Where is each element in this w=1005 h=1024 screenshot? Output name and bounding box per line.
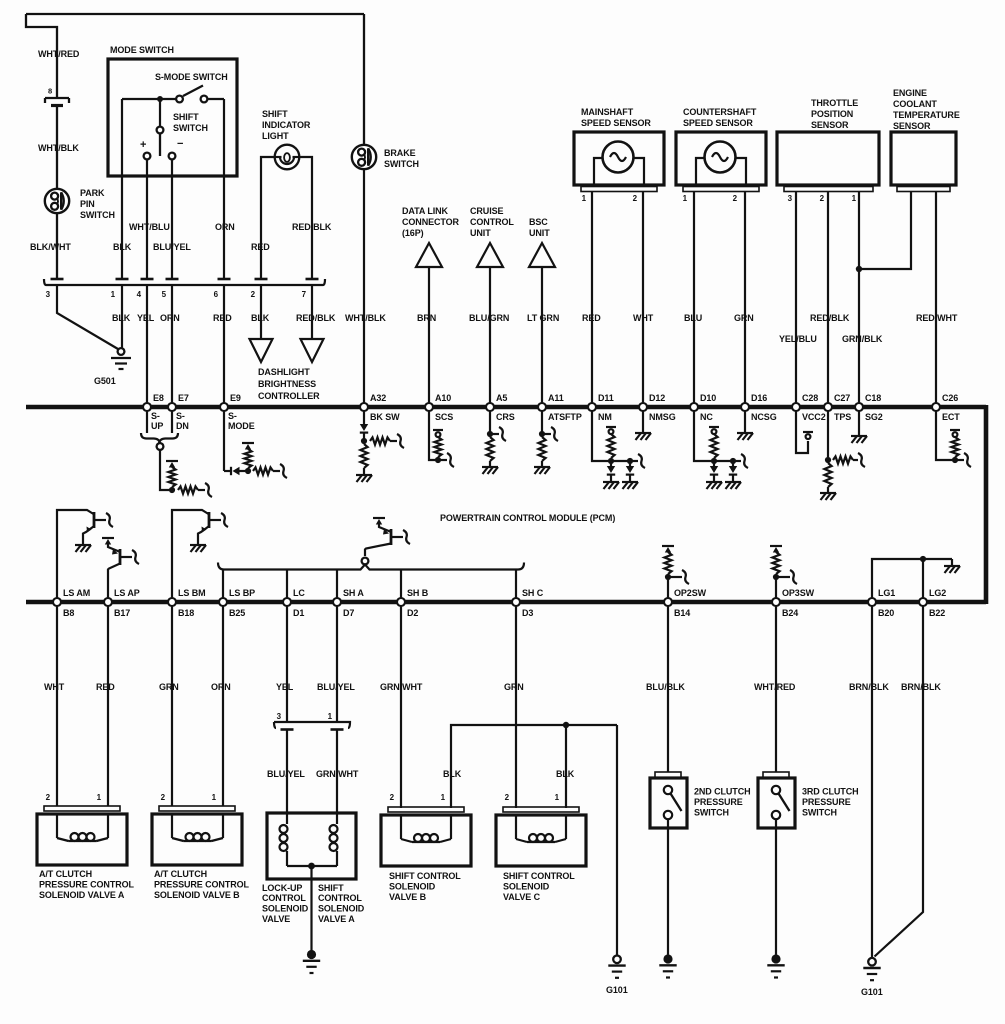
svg-text:SWITCH: SWITCH — [384, 159, 419, 169]
svg-text:E7: E7 — [178, 393, 189, 403]
svg-text:PRESSURE CONTROL: PRESSURE CONTROL — [154, 880, 250, 890]
ground rail BLK — [451, 725, 617, 808]
wire GRN LS BM — [171, 607, 173, 807]
svg-text:C28: C28 — [802, 393, 818, 403]
svg-text:VALVE B: VALVE B — [389, 892, 427, 902]
wire YEL/BLU TPS 3 to C28 — [795, 192, 797, 406]
svg-text:A32: A32 — [370, 393, 386, 403]
svg-text:C18: C18 — [865, 393, 881, 403]
svg-text:DN: DN — [176, 421, 189, 431]
svg-text:1: 1 — [111, 290, 116, 299]
svg-text:+: + — [140, 139, 146, 151]
svg-text:D3: D3 — [522, 608, 533, 618]
svg-text:CRUISE: CRUISE — [470, 206, 504, 216]
svg-text:VCC2: VCC2 — [802, 412, 826, 422]
svg-text:CONNECTOR: CONNECTOR — [402, 217, 460, 227]
wire RED LS AP — [107, 607, 109, 807]
svg-text:SOLENOID: SOLENOID — [503, 882, 550, 892]
connector OP3SW / B24 — [772, 598, 780, 606]
svg-text:A10: A10 — [435, 393, 451, 403]
svg-text:SPEED SENSOR: SPEED SENSOR — [581, 118, 651, 128]
svg-text:7: 7 — [302, 290, 307, 299]
connector LS AP / B17 — [104, 598, 112, 606]
wire YEL pin4 to E8 — [146, 285, 148, 405]
internal circuit LG1/LG2 ground — [872, 559, 952, 600]
wire GRN/WHT to shift solenoid A — [336, 730, 338, 814]
terminal bar pin x=122 — [116, 278, 129, 281]
internal circuit ATSFTP: resistor to ground — [541, 412, 543, 435]
svg-text:WHT/BLK: WHT/BLK — [345, 313, 386, 323]
terminal bar pin x=147 — [141, 278, 154, 281]
svg-text:BLU/YEL: BLU/YEL — [267, 769, 305, 779]
wire GRN/WHT SH B — [400, 607, 402, 809]
PCM upper edge bus — [26, 405, 986, 410]
wire shift indicator RED/BLK — [299, 157, 312, 279]
connector SH C / D3 — [512, 598, 520, 606]
svg-text:YEL: YEL — [276, 682, 294, 692]
svg-text:8: 8 — [48, 87, 52, 96]
svg-text:B25: B25 — [229, 608, 245, 618]
svg-text:A5: A5 — [496, 393, 507, 403]
internal circuit OP3SW: pull-up resistor — [770, 545, 782, 547]
svg-text:MODE: MODE — [228, 421, 255, 431]
internal circuit S-MODE: diode, pull-up resistor, series resistor — [223, 412, 225, 472]
svg-text:UNIT: UNIT — [529, 228, 550, 238]
svg-text:SWITCH: SWITCH — [802, 808, 837, 818]
internal circuit NM: pull-up, clamp diodes, grounds — [592, 412, 611, 462]
transistor LS AM driver Q1 — [57, 510, 94, 600]
transistor LS BM driver Q2 — [172, 510, 209, 600]
svg-text:2ND CLUTCH: 2ND CLUTCH — [694, 787, 751, 797]
svg-text:WHT/RED: WHT/RED — [754, 682, 796, 692]
svg-text:WHT: WHT — [44, 682, 65, 692]
svg-text:VALVE: VALVE — [262, 914, 290, 924]
internal circuit CRS: resistor to ground — [489, 412, 491, 435]
wire YEL LC — [286, 607, 288, 723]
connector C27 — [824, 403, 832, 411]
svg-text:S-: S- — [228, 411, 237, 421]
connector A10 — [425, 403, 433, 411]
svg-text:COUNTERSHAFT: COUNTERSHAFT — [683, 107, 757, 117]
svg-text:D16: D16 — [751, 393, 767, 403]
wire top feed B+ — [26, 13, 364, 15]
wire LT GRN to A11 — [541, 267, 543, 405]
junction dot valve C pin 1 — [563, 722, 569, 728]
svg-text:B14: B14 — [674, 608, 690, 618]
svg-text:OP3SW: OP3SW — [782, 588, 815, 598]
svg-text:PRESSURE CONTROL: PRESSURE CONTROL — [39, 880, 135, 890]
svg-text:POSITION: POSITION — [811, 109, 853, 119]
svg-text:UNIT: UNIT — [470, 228, 491, 238]
svg-text:LS BP: LS BP — [229, 588, 255, 598]
svg-text:1: 1 — [212, 793, 217, 802]
svg-text:OP2SW: OP2SW — [674, 588, 707, 598]
svg-text:B24: B24 — [782, 608, 798, 618]
svg-text:BRN/BLK: BRN/BLK — [849, 682, 889, 692]
wire ORN LS BP — [222, 607, 224, 807]
svg-text:GRN/WHT: GRN/WHT — [316, 769, 359, 779]
svg-text:B22: B22 — [929, 608, 945, 618]
connector SH A / D7 — [333, 598, 341, 606]
svg-text:D10: D10 — [700, 393, 716, 403]
svg-text:2: 2 — [46, 793, 51, 802]
svg-text:MODE SWITCH: MODE SWITCH — [110, 45, 174, 55]
svg-text:DATA LINK: DATA LINK — [402, 206, 449, 216]
svg-text:SOLENOID: SOLENOID — [389, 882, 436, 892]
svg-text:B17: B17 — [114, 608, 130, 618]
wire shift indicator RED — [261, 157, 275, 279]
svg-text:3: 3 — [788, 194, 793, 203]
internal circuit SG2: ground — [858, 412, 860, 436]
svg-text:SHIFT: SHIFT — [173, 112, 199, 122]
connector C26 — [932, 403, 940, 411]
wire WHT/RED OP3SW — [775, 607, 777, 773]
svg-text:MAINSHAFT: MAINSHAFT — [581, 107, 634, 117]
ground G501 — [118, 348, 125, 355]
svg-text:SENSOR: SENSOR — [811, 120, 849, 130]
wire RED pin6 to E9 — [223, 285, 225, 405]
svg-text:ENGINE: ENGINE — [893, 88, 927, 98]
wire RED/WHT ECT to C26 — [935, 192, 937, 406]
wire RED/BLK pin7 to dashlight controller — [311, 285, 313, 339]
wire BLU countershaft 1 to D10 — [693, 192, 695, 406]
svg-text:S-MODE SWITCH: S-MODE SWITCH — [155, 72, 228, 82]
internal circuit BK SW: diode, resistors, ground — [363, 412, 365, 425]
connector D10 — [690, 403, 698, 411]
svg-text:SENSOR: SENSOR — [893, 121, 931, 131]
svg-text:TEMPERATURE: TEMPERATURE — [893, 110, 960, 120]
connector D12 — [639, 403, 647, 411]
svg-text:BSC: BSC — [529, 217, 548, 227]
svg-text:ORN: ORN — [215, 222, 235, 232]
internal circuit ECT: pull-up resistor — [936, 412, 952, 461]
wire RED mainshaft 1 to D11 — [591, 192, 593, 406]
svg-text:NC: NC — [700, 412, 713, 422]
svg-text:A11: A11 — [548, 393, 564, 403]
shift solenoid output brace — [218, 563, 524, 570]
svg-text:LIGHT: LIGHT — [262, 131, 289, 141]
svg-text:D7: D7 — [343, 608, 354, 618]
internal circuit NCSG: ground — [744, 412, 746, 433]
connector LS AM / B8 — [53, 598, 61, 606]
svg-text:BLK: BLK — [443, 769, 462, 779]
svg-text:1: 1 — [555, 793, 560, 802]
svg-text:D11: D11 — [598, 393, 614, 403]
svg-text:WHT/BLK: WHT/BLK — [38, 143, 79, 153]
svg-text:RED: RED — [213, 313, 232, 323]
svg-text:1: 1 — [328, 712, 333, 721]
terminal bar pin x=172 — [166, 278, 179, 281]
brace drop wire x=337 — [336, 570, 338, 601]
svg-text:ORN: ORN — [160, 313, 180, 323]
svg-text:C27: C27 — [834, 393, 850, 403]
svg-text:SHIFT CONTROL: SHIFT CONTROL — [503, 871, 575, 881]
dashlight brightness controller triangle 2 — [301, 339, 324, 362]
svg-text:DASHLIGHT: DASHLIGHT — [258, 367, 310, 377]
svg-text:GRN: GRN — [504, 682, 524, 692]
ground G101 left — [613, 956, 621, 964]
wire lock-up to ground — [310, 866, 312, 952]
wire BRN to A10 — [428, 267, 430, 405]
wire BLU/BLK OP2SW — [667, 607, 669, 773]
svg-text:B20: B20 — [878, 608, 894, 618]
park pin switch — [45, 189, 69, 213]
svg-text:E8: E8 — [153, 393, 164, 403]
wire WHT mainshaft 2 to D12 — [642, 192, 644, 406]
wire BRN/BLK LG1 — [871, 607, 873, 958]
svg-text:G101: G101 — [606, 985, 628, 995]
wire BLK/WHT pin3 to G501 — [57, 285, 118, 349]
svg-text:1: 1 — [683, 194, 688, 203]
2nd clutch pressure switch — [655, 772, 681, 778]
svg-text:BLU/YEL: BLU/YEL — [317, 682, 355, 692]
svg-text:C26: C26 — [942, 393, 958, 403]
svg-text:D12: D12 — [649, 393, 665, 403]
svg-text:CONTROL: CONTROL — [470, 217, 514, 227]
svg-text:ORN: ORN — [211, 682, 231, 692]
svg-text:RED/BLK: RED/BLK — [292, 222, 332, 232]
wire BLK/WHT — [56, 213, 58, 279]
connector C28 — [792, 403, 800, 411]
wire BLK valve C pin1 — [565, 725, 567, 808]
svg-text:BLU: BLU — [684, 313, 702, 323]
wire ECT left to SG2 node — [859, 192, 911, 270]
brace drop wire x=287 — [286, 570, 288, 601]
internal circuit TPS: series resistor and divider — [827, 412, 829, 458]
PCM lower edge bus — [26, 600, 986, 605]
svg-text:RED: RED — [251, 242, 270, 252]
svg-text:3: 3 — [277, 712, 282, 721]
svg-text:2: 2 — [161, 793, 166, 802]
connector A11 — [538, 403, 546, 411]
connector E8 — [143, 403, 151, 411]
svg-text:RED: RED — [96, 682, 115, 692]
junction dot SG2/ECT — [856, 266, 862, 272]
svg-text:UP: UP — [151, 421, 163, 431]
svg-text:BK SW: BK SW — [370, 412, 400, 422]
svg-text:S-: S- — [151, 411, 160, 421]
svg-text:1: 1 — [852, 194, 857, 203]
connector E9 — [220, 403, 228, 411]
svg-text:BRN/BLK: BRN/BLK — [901, 682, 941, 692]
shift driver output node — [362, 558, 369, 565]
svg-text:CONTROL: CONTROL — [262, 893, 306, 903]
svg-text:D2: D2 — [407, 608, 418, 618]
wire GRN SH C — [515, 607, 517, 809]
svg-text:LS AP: LS AP — [114, 588, 140, 598]
wire WHT/RED drop — [26, 14, 57, 97]
ground 2nd clutch switch — [663, 954, 672, 963]
svg-text:VALVE C: VALVE C — [503, 892, 541, 902]
svg-text:LG2: LG2 — [929, 588, 946, 598]
svg-text:2: 2 — [633, 194, 638, 203]
svg-text:LS BM: LS BM — [178, 588, 206, 598]
ground lock-up solenoid — [307, 950, 316, 959]
svg-text:WHT/RED: WHT/RED — [38, 49, 80, 59]
connector LS BM / B18 — [168, 598, 176, 606]
svg-text:VALVE A: VALVE A — [318, 914, 355, 924]
svg-text:GRN: GRN — [734, 313, 754, 323]
svg-text:NM: NM — [598, 412, 612, 422]
svg-text:PIN: PIN — [80, 199, 95, 209]
svg-text:LOCK-UP: LOCK-UP — [262, 883, 302, 893]
transistor shift solenoid driver Q4 — [373, 517, 385, 519]
3rd clutch pressure switch — [763, 772, 789, 778]
wire BLK pin2 to dashlight controller — [260, 285, 262, 339]
wire rail to G101 — [616, 725, 618, 955]
svg-text:TPS: TPS — [834, 412, 851, 422]
connector LG1 / B20 — [868, 598, 876, 606]
svg-text:GRN: GRN — [159, 682, 179, 692]
svg-text:S-: S- — [176, 411, 185, 421]
svg-text:SOLENOID VALVE B: SOLENOID VALVE B — [154, 890, 240, 900]
svg-text:SG2: SG2 — [865, 412, 883, 422]
svg-text:1: 1 — [441, 793, 446, 802]
wire mode switch BLK — [121, 99, 123, 279]
wire brake switch WHT/BLK to A32 — [363, 169, 365, 405]
svg-text:BLU/BLK: BLU/BLK — [646, 682, 685, 692]
svg-text:GRN/BLK: GRN/BLK — [842, 334, 883, 344]
svg-text:B8: B8 — [63, 608, 74, 618]
svg-text:SOLENOID: SOLENOID — [262, 904, 309, 914]
svg-text:5: 5 — [162, 290, 167, 299]
svg-text:G101: G101 — [861, 987, 883, 997]
connector LC / D1 — [283, 598, 291, 606]
connector C721 bracket — [44, 279, 325, 285]
svg-text:BLK/WHT: BLK/WHT — [30, 242, 71, 252]
lock-up control solenoid valve / shift control solenoid valve A — [267, 813, 356, 879]
svg-text:SH B: SH B — [407, 588, 429, 598]
svg-text:BLK: BLK — [556, 769, 575, 779]
svg-text:2: 2 — [505, 793, 510, 802]
svg-text:RED/BLK: RED/BLK — [296, 313, 336, 323]
svg-text:BRAKE: BRAKE — [384, 148, 416, 158]
svg-text:2: 2 — [733, 194, 738, 203]
wire mode switch WHT/BLU — [146, 160, 148, 280]
connector A32 — [360, 403, 368, 411]
svg-text:E9: E9 — [230, 393, 241, 403]
svg-text:6: 6 — [214, 290, 219, 299]
svg-text:−: − — [177, 138, 183, 150]
svg-text:PARK: PARK — [80, 188, 105, 198]
terminal bar pin x=261 — [255, 278, 268, 281]
wire BLU/YEL to lock-up solenoid — [286, 730, 288, 814]
connector LG2 / B22 — [919, 598, 927, 606]
internal circuit NC: pull-up, clamp diodes, grounds — [694, 412, 714, 462]
svg-text:YEL/BLU: YEL/BLU — [779, 334, 817, 344]
svg-text:SHIFT: SHIFT — [262, 109, 288, 119]
svg-text:PRESSURE: PRESSURE — [694, 797, 743, 807]
svg-text:THROTTLE: THROTTLE — [811, 98, 858, 108]
svg-text:NMSG: NMSG — [649, 412, 676, 422]
svg-text:ATSFTP: ATSFTP — [548, 412, 582, 422]
connector E7 — [168, 403, 176, 411]
svg-text:BLU/GRN: BLU/GRN — [469, 313, 509, 323]
connector OP2SW / B14 — [664, 598, 672, 606]
lock-up common node — [287, 865, 337, 867]
brace drop wire x=401 — [400, 570, 402, 601]
svg-text:WHT: WHT — [633, 313, 654, 323]
svg-text:BLU/YEL: BLU/YEL — [153, 242, 191, 252]
svg-text:SWITCH: SWITCH — [80, 210, 115, 220]
wire BLK pin1 to G501 — [121, 285, 123, 348]
S-UP/S-DN brace — [141, 433, 178, 443]
connector C18 — [855, 403, 863, 411]
svg-text:RED: RED — [582, 313, 601, 323]
wire BRN/BLK LG2 — [875, 607, 924, 957]
wire mode switch BLU/YEL — [171, 160, 173, 280]
internal circuit NMSG: ground — [642, 412, 644, 433]
internal circuit VCC2: supply — [796, 412, 808, 454]
svg-text:(16P): (16P) — [402, 228, 424, 238]
svg-text:3RD CLUTCH: 3RD CLUTCH — [802, 787, 859, 797]
svg-text:3: 3 — [46, 290, 51, 299]
terminal bar pin x=57 — [51, 278, 64, 281]
terminal bar pin x=224 — [218, 278, 231, 281]
connector SH B / D2 — [397, 598, 405, 606]
svg-text:ECT: ECT — [942, 412, 960, 422]
solenoid coil x=337 — [336, 813, 338, 824]
wire BLU/YEL SH A — [336, 607, 338, 723]
connector A5 — [486, 403, 494, 411]
svg-text:1: 1 — [582, 194, 587, 203]
wire ORN pin5 to E7 — [171, 285, 173, 405]
svg-text:RED/WHT: RED/WHT — [916, 313, 958, 323]
svg-text:SPEED SENSOR: SPEED SENSOR — [683, 118, 753, 128]
svg-text:B18: B18 — [178, 608, 194, 618]
svg-text:GRN/WHT: GRN/WHT — [380, 682, 423, 692]
svg-text:BLK: BLK — [251, 313, 270, 323]
wire WHT/BLK — [56, 106, 58, 190]
svg-text:2: 2 — [390, 793, 395, 802]
svg-text:CONTROLLER: CONTROLLER — [258, 391, 320, 401]
wire RED/BLK TPS 2 to C27 — [827, 192, 829, 406]
internal circuit SCS: pull-up resistor — [429, 412, 435, 461]
svg-text:POWERTRAIN CONTROL MODULE (PCM: POWERTRAIN CONTROL MODULE (PCM) — [440, 513, 615, 523]
internal circuit OP2SW: pull-up resistor — [662, 545, 674, 547]
svg-text:SWITCH: SWITCH — [173, 123, 208, 133]
svg-text:BRIGHTNESS: BRIGHTNESS — [258, 379, 316, 389]
svg-text:A/T CLUTCH: A/T CLUTCH — [39, 869, 92, 879]
svg-text:LC: LC — [293, 588, 305, 598]
svg-text:INDICATOR: INDICATOR — [262, 120, 311, 130]
internal circuit S-UP/S-DN: pull-up resistor and series resistor — [160, 450, 169, 490]
svg-text:SOLENOID VALVE A: SOLENOID VALVE A — [39, 890, 125, 900]
brace drop wire x=223 — [222, 570, 224, 601]
svg-text:SHIFT CONTROL: SHIFT CONTROL — [389, 871, 461, 881]
wire mode switch ORN — [223, 99, 225, 279]
svg-text:WHT/BLU: WHT/BLU — [129, 222, 170, 232]
svg-text:SOLENOID: SOLENOID — [318, 904, 365, 914]
svg-text:SWITCH: SWITCH — [694, 808, 729, 818]
svg-text:PRESSURE: PRESSURE — [802, 797, 851, 807]
svg-text:2: 2 — [820, 194, 825, 203]
svg-text:2: 2 — [251, 290, 256, 299]
svg-text:1: 1 — [97, 793, 102, 802]
connector D11 — [588, 403, 596, 411]
brake switch — [363, 14, 365, 145]
svg-text:SH C: SH C — [522, 588, 544, 598]
svg-text:RED/BLK: RED/BLK — [810, 313, 850, 323]
terminal bar pin x=312 — [306, 278, 319, 281]
svg-text:A/T CLUTCH: A/T CLUTCH — [154, 869, 207, 879]
svg-text:SHIFT: SHIFT — [318, 883, 344, 893]
connector LS BP / B25 — [219, 598, 227, 606]
svg-text:CRS: CRS — [496, 412, 515, 422]
s-mode switch contacts — [122, 98, 176, 100]
svg-text:LT GRN: LT GRN — [527, 313, 559, 323]
wire BLU/GRN to A5 — [489, 267, 491, 405]
